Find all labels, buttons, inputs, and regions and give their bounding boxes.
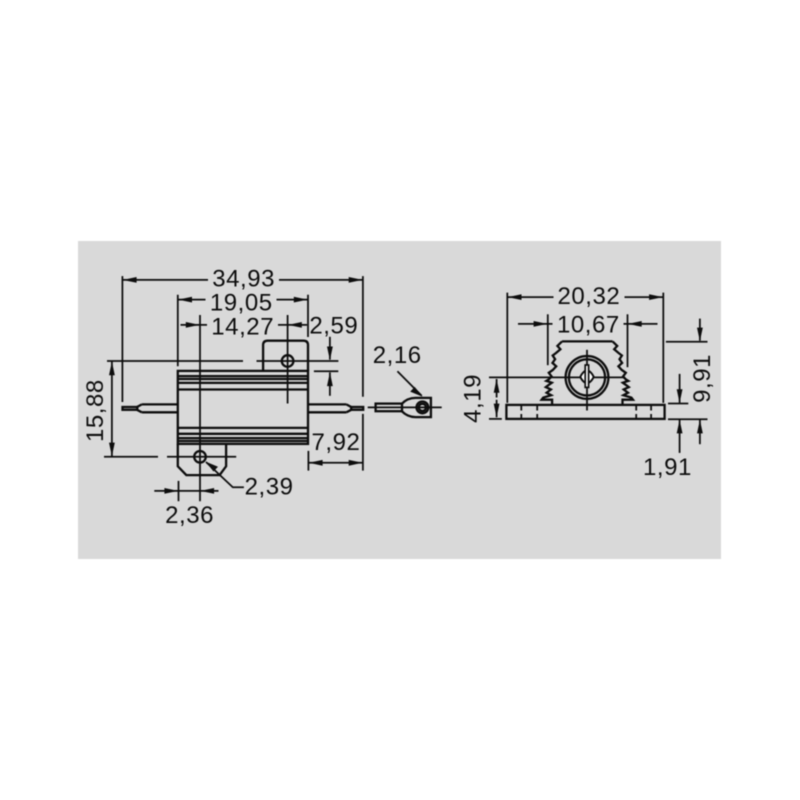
arrow 7,92 left <box>309 460 323 466</box>
solder lug detail centerline <box>368 406 442 408</box>
arrow 1,91 bottom <box>679 420 681 453</box>
main horizontal centerline <box>489 376 625 378</box>
arrow 34,93 right <box>349 277 363 283</box>
left lead thin tip <box>123 407 138 410</box>
dimension line 34,93 <box>122 279 363 281</box>
dimension line 14,27 <box>200 324 288 326</box>
svg-text:2,16: 2,16 <box>373 342 422 369</box>
solder lug flag outline <box>402 398 431 417</box>
base flange <box>506 405 664 419</box>
dimension 2,59 ticks <box>314 370 338 372</box>
top tab hole <box>282 355 294 367</box>
extension line 34,93 left <box>121 276 123 402</box>
bottom heatsink fin line 1 <box>178 427 308 429</box>
svg-text:4,19: 4,19 <box>459 374 486 423</box>
dimension line 7,92 <box>308 462 363 464</box>
top heatsink fin line 1 <box>178 375 308 377</box>
bottom mounting tab <box>178 444 226 475</box>
dimension line 2,36 <box>154 490 218 492</box>
arrow 1,91 top <box>679 374 681 403</box>
svg-text:34,93: 34,93 <box>212 265 275 292</box>
top heatsink fin line 4 <box>178 388 308 390</box>
dimension 9,91 / 1,91 bottom tick <box>668 418 708 420</box>
arrow 4,19 down <box>496 400 498 418</box>
svg-text:20,32: 20,32 <box>557 283 620 310</box>
arrow 9,91 top <box>699 319 701 341</box>
arrow 14,27 left outside <box>181 324 200 326</box>
solder lug barrel <box>376 404 402 412</box>
base slot hidden edge 1 <box>520 406 522 418</box>
drawing panel background <box>78 241 721 559</box>
extension line 20,32 left <box>506 293 508 403</box>
arrow 9,91 bottom <box>699 420 701 445</box>
arrow 20,32 left <box>508 294 522 300</box>
label 7,92 <box>311 432 362 453</box>
arrow 2,59 down <box>329 337 331 360</box>
leader arrow 2,39 <box>206 462 218 472</box>
leader arrow 2,16 <box>410 387 422 397</box>
vertical centerline bottom hole <box>199 315 201 501</box>
base slot hidden edge 4 <box>650 406 652 418</box>
dimension line 20,32 <box>507 296 663 298</box>
arrow 2,59 up <box>329 372 331 395</box>
svg-text:15,88: 15,88 <box>82 379 109 442</box>
dimension line 15,88 <box>111 361 113 457</box>
right zigzag fin profile <box>613 341 633 405</box>
left zigzag fin profile <box>542 341 562 405</box>
extension line 34,93 / 7,92 right <box>362 276 364 471</box>
body top edge <box>562 340 613 342</box>
right lead body <box>308 404 346 412</box>
extension line 7,92 left <box>307 451 309 471</box>
svg-text:2,59: 2,59 <box>309 313 358 340</box>
label 19,05 <box>206 294 277 314</box>
svg-text:10,67: 10,67 <box>557 312 620 339</box>
label 9,91 rotated <box>692 352 712 405</box>
arrow 2,36 right outside <box>200 488 214 494</box>
leader line 2,39 <box>206 462 244 487</box>
top heatsink fin line 3 <box>178 382 308 384</box>
terminal tab edge view <box>585 365 588 387</box>
lead lens cross-section <box>580 370 593 384</box>
left lead body <box>142 404 178 412</box>
arrow 10,67 right outside <box>628 323 658 325</box>
svg-text:7,92: 7,92 <box>312 429 361 456</box>
svg-text:2,39: 2,39 <box>245 473 294 500</box>
extension line 19,05 left <box>177 295 179 367</box>
label 10,67 <box>553 315 624 335</box>
extension tick 2,36 left <box>178 481 180 501</box>
center circle inner <box>569 359 605 395</box>
arrow 19,05 left <box>178 297 192 303</box>
bottom tab hole <box>194 451 206 463</box>
vertical centerline top hole <box>287 315 289 404</box>
svg-text:9,91: 9,91 <box>689 354 716 403</box>
arrow 15,88 down <box>109 443 115 457</box>
dimension line 19,05 <box>178 299 308 301</box>
bottom heatsink fin line 2 <box>178 433 308 435</box>
right lead crimp transition <box>346 404 351 412</box>
extension line 19,05 right <box>307 295 309 337</box>
label 14,27 <box>207 317 278 337</box>
centerline through bottom tab hole <box>104 456 236 458</box>
arrow 4,19 up <box>496 379 498 398</box>
base slot hidden edge 2 <box>536 406 538 418</box>
arrow 19,05 right <box>294 297 308 303</box>
solder lug ring inner <box>419 404 426 411</box>
extension line 10,67 left <box>547 314 549 365</box>
bottom heatsink fin line 4 <box>178 440 308 442</box>
vertical centerline <box>586 350 588 411</box>
right lead thin tip <box>351 407 363 410</box>
label 20,32 <box>554 286 625 306</box>
dimension 9,91 top tick <box>666 341 708 343</box>
bottom heatsink fin line 3 <box>178 437 308 439</box>
dimension 4,19 bottom tick <box>489 418 502 420</box>
arrow 14,27 right outside <box>288 324 307 326</box>
extension line 20,32 right <box>662 293 664 403</box>
arrow 15,88 up <box>109 362 115 376</box>
top heatsink fin line 2 <box>178 378 308 380</box>
base slot hidden edge 3 <box>635 406 637 418</box>
center circle outer <box>566 356 609 399</box>
arrow 20,32 right <box>649 294 663 300</box>
arrow 2,36 left outside <box>164 488 178 494</box>
label 34,93 <box>208 270 279 290</box>
svg-text:2,36: 2,36 <box>165 502 214 529</box>
arrow 7,92 right <box>349 460 363 466</box>
svg-text:1,91: 1,91 <box>643 454 692 481</box>
top mounting tab <box>263 341 308 371</box>
solder lug ring outer <box>417 402 429 414</box>
centerline through top tab hole <box>107 360 338 362</box>
svg-text:14,27: 14,27 <box>211 314 274 341</box>
leader line 2,16 <box>397 371 421 396</box>
arrow 34,93 left <box>123 277 137 283</box>
arrow 10,67 left outside <box>518 323 548 325</box>
extension line 10,67 right <box>627 314 629 367</box>
dimension line 10,67 <box>548 323 628 325</box>
left lead crimp transition <box>137 404 142 412</box>
resistor body outline <box>178 371 308 444</box>
dimension 1,91 top tick <box>668 403 688 405</box>
